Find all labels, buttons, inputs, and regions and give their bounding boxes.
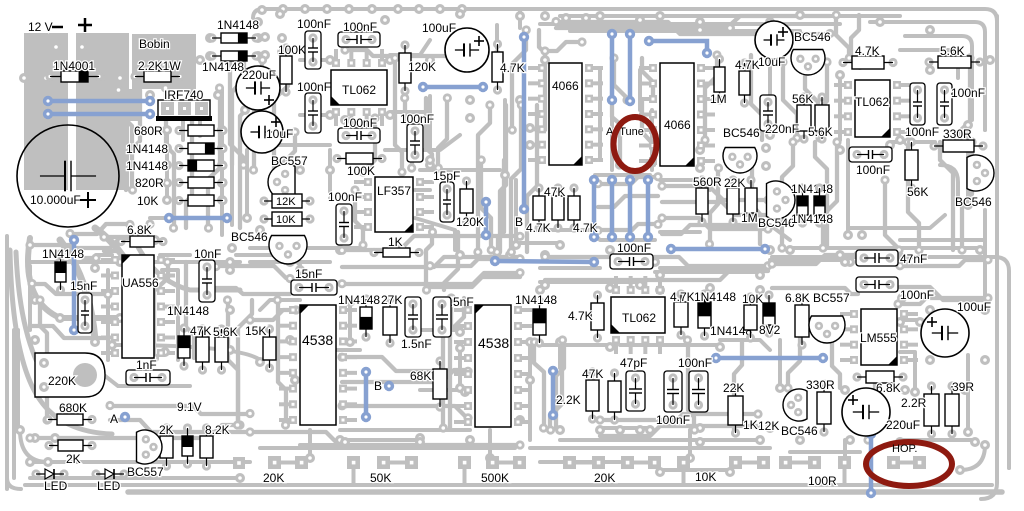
svg-text:TL062: TL062 bbox=[622, 311, 656, 325]
diode 1N4148 j bbox=[533, 296, 546, 347]
resistor 56K 2 bbox=[905, 137, 918, 192]
op-amp U10 TL062 bbox=[611, 286, 665, 344]
svg-text:BC557: BC557 bbox=[271, 154, 308, 168]
svg-text:15nF: 15nF bbox=[295, 267, 322, 281]
svg-text:47K: 47K bbox=[544, 185, 565, 199]
resistor 22K 2 bbox=[728, 383, 743, 437]
wire mesh bbox=[815, 142, 827, 248]
switch U8 4066 bbox=[649, 63, 705, 166]
wire mesh bbox=[395, 58, 402, 172]
wire bottom bus 4 bbox=[540, 460, 620, 464]
wire top sweep 1 bbox=[560, 14, 900, 18]
svg-text:1N4148: 1N4148 bbox=[338, 293, 380, 307]
wire c2 v1 bbox=[458, 350, 462, 385]
wire mesh bbox=[40, 300, 47, 420]
svg-text:4066: 4066 bbox=[664, 118, 691, 132]
wire mesh bbox=[598, 177, 658, 184]
diode 1N4148 f bbox=[178, 323, 190, 370]
transistor BC557 3 bbox=[809, 316, 845, 343]
svg-text:10K: 10K bbox=[137, 194, 158, 208]
wire mesh bbox=[612, 100, 620, 165]
wire mb h 420 bbox=[600, 426, 650, 430]
wire c v 495 bbox=[495, 25, 499, 48]
wire fat 2 bbox=[60, 240, 95, 340]
svg-text:4538: 4538 bbox=[302, 332, 333, 348]
svg-text:1N4148: 1N4148 bbox=[217, 18, 259, 32]
wire mesh bbox=[30, 245, 96, 258]
svg-text:1N4148: 1N4148 bbox=[126, 159, 168, 173]
wire mesh bbox=[772, 255, 858, 264]
svg-text:12 V: 12 V bbox=[28, 20, 53, 34]
wire mesh bbox=[355, 190, 363, 245]
capacitor 220nF bbox=[760, 95, 776, 131]
capacitor 100nF 2 bbox=[338, 32, 380, 47]
svg-text:100nF: 100nF bbox=[297, 17, 331, 31]
resistor 5.6K h bbox=[924, 56, 984, 68]
wire blue long v524 bbox=[522, 37, 527, 209]
resistor 6.8K bbox=[116, 236, 167, 247]
svg-text:1nF: 1nF bbox=[136, 358, 157, 372]
wire tl1 c bbox=[300, 113, 330, 117]
wire mesh bbox=[556, 342, 564, 428]
wire mesh bbox=[851, 15, 859, 58]
diode 1N4148 i bbox=[814, 183, 825, 227]
wire board bottom edge 2 bbox=[128, 489, 1002, 495]
wire board left edge bbox=[7, 236, 21, 489]
svg-text:BC546: BC546 bbox=[231, 230, 268, 244]
wire mesh bbox=[405, 98, 412, 168]
wire 4538 mid3 bbox=[420, 328, 460, 332]
wire 4538 gap h1 bbox=[340, 428, 470, 432]
resistor 22K 1 bbox=[727, 175, 739, 226]
svg-text:680R: 680R bbox=[134, 124, 163, 138]
wire left edge2 bbox=[12, 330, 16, 478]
diode 1N4148 d bbox=[207, 51, 260, 61]
wire blue cap link bbox=[423, 85, 483, 90]
wire blue v486 bbox=[484, 202, 489, 235]
LED 1 bbox=[31, 469, 68, 479]
svg-text:22K: 22K bbox=[724, 176, 745, 190]
wire r h 142 bbox=[890, 140, 935, 144]
wire 4066 mid v1 bbox=[598, 70, 602, 160]
resistor 5.6K v2 bbox=[815, 92, 829, 143]
resistor 1M 2 bbox=[745, 175, 757, 225]
capacitor 100uF 2 bbox=[921, 309, 969, 357]
capacitor 100nF 3 bbox=[305, 93, 321, 133]
wire mb h 345 bbox=[540, 343, 610, 347]
wire mid h 268 bbox=[540, 266, 600, 270]
diode 1N4148 h bbox=[797, 183, 808, 227]
wire mesh bbox=[705, 55, 717, 140]
svg-text:10uF: 10uF bbox=[266, 127, 293, 141]
svg-text:4538: 4538 bbox=[478, 335, 509, 351]
svg-text:15K: 15K bbox=[245, 324, 266, 338]
wire mesh bbox=[342, 257, 520, 267]
svg-text:47K: 47K bbox=[190, 324, 211, 338]
wire mesh bbox=[550, 340, 562, 430]
svg-text:4066: 4066 bbox=[552, 79, 579, 93]
resistor 120K v2 bbox=[460, 176, 473, 225]
gray plane mid (12V positive rail) bbox=[76, 33, 129, 190]
svg-text:BC557: BC557 bbox=[127, 465, 164, 479]
wire lm h1 bbox=[30, 260, 240, 264]
wire mesh bbox=[614, 58, 627, 100]
svg-text:4.7K: 4.7K bbox=[735, 58, 760, 72]
wire mesh bbox=[962, 142, 972, 250]
minus terminal bbox=[52, 26, 63, 29]
wire mesh bbox=[444, 232, 458, 290]
svg-text:1N4148: 1N4148 bbox=[167, 304, 209, 318]
wire bl sweep2 bbox=[16, 252, 56, 392]
svg-text:100nF: 100nF bbox=[678, 356, 712, 370]
wire blue supply 1 bbox=[48, 99, 150, 104]
wire right ring bbox=[772, 257, 1009, 468]
svg-text:680K: 680K bbox=[59, 401, 87, 415]
svg-text:1N4148: 1N4148 bbox=[791, 212, 833, 226]
wire bottom bus 2 bbox=[260, 446, 515, 450]
plus terminal bbox=[78, 18, 92, 32]
wire mesh bbox=[104, 251, 150, 262]
capacitor 100nF 12 bbox=[689, 371, 708, 412]
svg-text:100K: 100K bbox=[347, 164, 375, 178]
wire mesh bbox=[832, 332, 840, 388]
via pads bbox=[257, 5, 267, 15]
svg-text:5.6K: 5.6K bbox=[940, 44, 965, 58]
svg-text:220K: 220K bbox=[48, 374, 76, 388]
svg-text:1N4001: 1N4001 bbox=[53, 59, 95, 73]
resistor 47K b bbox=[552, 183, 564, 232]
wire r v 968 bbox=[966, 130, 970, 200]
svg-text:560R: 560R bbox=[693, 175, 722, 189]
svg-text:330R: 330R bbox=[806, 378, 835, 392]
wire rb v1 bbox=[778, 340, 782, 385]
wire v 250 bbox=[245, 150, 249, 215]
wire bl corner2 bbox=[5, 478, 9, 489]
wire mesh bbox=[216, 266, 290, 278]
wire mesh bbox=[900, 287, 988, 300]
wire mesh bbox=[783, 62, 797, 138]
wire lm v1 bbox=[28, 266, 32, 330]
capacitor 100nF 6 bbox=[336, 204, 352, 245]
wire mesh bbox=[710, 168, 718, 244]
capacitor 100nF 7 bbox=[610, 254, 653, 269]
svg-text:100K: 100K bbox=[278, 43, 306, 57]
wire tr corner 2 bbox=[905, 36, 972, 120]
wire blue left mid bbox=[169, 216, 227, 221]
wire blue v612 bbox=[610, 34, 615, 100]
wire board bottom edge 1 bbox=[25, 483, 992, 487]
wire r v 848 bbox=[846, 140, 850, 230]
wire mesh bbox=[481, 160, 491, 250]
wire mesh bbox=[240, 88, 246, 228]
monostable U5 4538 bbox=[289, 305, 347, 425]
wire mesh bbox=[104, 224, 150, 237]
svg-text:100nF: 100nF bbox=[297, 80, 331, 94]
wire mesh bbox=[885, 180, 899, 250]
resistor 4.7K h bbox=[838, 56, 897, 69]
svg-text:100nF: 100nF bbox=[905, 125, 939, 139]
wire 4066 mid v2 bbox=[610, 110, 614, 170]
wire 4066 mid v3 bbox=[638, 70, 642, 110]
wire mesh bbox=[238, 300, 252, 425]
svg-text:4.7K: 4.7K bbox=[670, 290, 695, 304]
wire blue v612b bbox=[610, 180, 615, 237]
wire mesh bbox=[232, 55, 244, 165]
wire bottom bus 3 bbox=[530, 446, 770, 450]
diode 1N4148 e bbox=[55, 249, 66, 294]
wire mid right mesh bbox=[712, 225, 790, 240]
wire mesh bbox=[32, 326, 108, 338]
wire mesh bbox=[345, 50, 468, 56]
wire ladder bus2 bbox=[165, 135, 169, 200]
svg-text:100nF: 100nF bbox=[400, 112, 434, 126]
wire r h 452 bbox=[790, 450, 860, 454]
resistor 2.2K bbox=[608, 368, 621, 424]
wire r h 258 bbox=[770, 258, 845, 262]
wire mesh bbox=[450, 298, 464, 428]
wire mesh bbox=[788, 332, 800, 388]
resistor 100K v bbox=[280, 43, 292, 96]
wire c h 150 bbox=[385, 135, 460, 150]
wire mesh bbox=[534, 342, 544, 428]
svg-text:220uF: 220uF bbox=[242, 68, 276, 82]
svg-text:9.1V: 9.1V bbox=[177, 400, 202, 414]
svg-text:22K: 22K bbox=[723, 381, 744, 395]
wire blue v871 bbox=[869, 434, 874, 493]
svg-text:100nF: 100nF bbox=[900, 288, 934, 302]
capacitor 220uF 2 bbox=[842, 388, 890, 436]
wire blue v553 bbox=[551, 371, 556, 415]
svg-text:27K: 27K bbox=[381, 293, 402, 307]
wire bottom drop 1 bbox=[308, 430, 312, 455]
wire mesh bbox=[782, 142, 793, 248]
resistor 10K box bbox=[259, 212, 314, 226]
wire tr loop bbox=[900, 50, 958, 78]
resistor 2K 1 bbox=[44, 440, 96, 451]
monostable U6 4538 bbox=[464, 305, 522, 427]
wire r h 245 bbox=[790, 246, 980, 250]
wire tl1 b bbox=[390, 40, 430, 55]
trimmer pads bottom row bbox=[233, 457, 245, 469]
wire bl sweep1 bbox=[10, 250, 112, 434]
wire mesh bbox=[228, 300, 238, 425]
wire mesh bbox=[642, 100, 654, 165]
capacitor 10nF bbox=[199, 260, 215, 302]
svg-text:4.7K: 4.7K bbox=[500, 61, 525, 75]
wire mesh bbox=[752, 168, 760, 244]
wire 4538 gap v1 bbox=[348, 300, 352, 340]
svg-text:B: B bbox=[374, 379, 382, 393]
wire 4538 top bbox=[260, 300, 300, 310]
svg-text:BC546: BC546 bbox=[758, 216, 795, 230]
transistor BC557 2 bbox=[137, 430, 163, 464]
wire mesh bbox=[823, 142, 837, 248]
svg-text:1N4148: 1N4148 bbox=[791, 182, 833, 196]
annotation ellipse Tune bbox=[614, 117, 657, 171]
capacitor 10uF 2 bbox=[755, 21, 793, 59]
wire mesh bbox=[443, 298, 451, 428]
wire blue v365 node B bbox=[364, 372, 369, 417]
svg-text:50K: 50K bbox=[370, 471, 391, 485]
svg-text:LM555: LM555 bbox=[860, 331, 897, 345]
wire blue v630 bbox=[628, 34, 633, 101]
capacitor 10.000uF bbox=[17, 125, 119, 227]
resistor 47K c bbox=[568, 183, 580, 232]
wire mesh bbox=[600, 414, 758, 420]
LED 2 bbox=[91, 469, 128, 479]
resistor 47K v1 bbox=[196, 324, 209, 374]
switch U7 4066 bbox=[538, 63, 593, 165]
wire mb v 560 bbox=[558, 340, 562, 368]
wire mesh bbox=[283, 132, 295, 172]
wire top mid vert bbox=[518, 9, 522, 28]
wire mesh bbox=[478, 105, 490, 252]
wire mid h 255 bbox=[660, 180, 710, 190]
svg-text:5.6K: 5.6K bbox=[808, 125, 833, 139]
resistor 680R bbox=[174, 125, 227, 136]
wire mesh bbox=[30, 425, 240, 438]
svg-text:100nF: 100nF bbox=[328, 190, 362, 204]
svg-text:4.7K: 4.7K bbox=[568, 309, 593, 323]
wire mid v 520 bbox=[514, 180, 518, 240]
wire mb stair bbox=[720, 340, 770, 350]
wire top sweep 3 bbox=[570, 29, 800, 33]
resistor 680K bbox=[43, 414, 96, 425]
wire mesh bbox=[70, 238, 130, 248]
svg-text:1M: 1M bbox=[741, 211, 758, 225]
svg-text:A: A bbox=[110, 412, 118, 426]
wire mesh bbox=[598, 196, 658, 207]
wire mesh bbox=[186, 262, 194, 358]
potentiometer 220K bbox=[35, 353, 105, 397]
annotation ellipse HOP bbox=[866, 442, 952, 486]
wire mid left mesh3 bbox=[96, 253, 112, 257]
op-amp U2 TL062 bbox=[331, 59, 387, 116]
svg-text:10K: 10K bbox=[742, 292, 763, 306]
resistor 120K v1 bbox=[399, 40, 411, 95]
zener 9.1V bbox=[182, 423, 193, 468]
capacitor 10uF bbox=[241, 111, 283, 153]
wire irf leg2 bbox=[181, 121, 185, 140]
svg-text:100nF: 100nF bbox=[343, 20, 377, 34]
svg-text:39R: 39R bbox=[952, 380, 974, 394]
svg-text:330R: 330R bbox=[943, 127, 972, 141]
wire bottom drop 4 bbox=[843, 440, 847, 458]
svg-text:BC546: BC546 bbox=[723, 126, 760, 140]
svg-text:4.7K: 4.7K bbox=[526, 221, 551, 235]
wire left big arc bbox=[28, 238, 120, 318]
wire blue supply 2 bbox=[48, 112, 150, 117]
transistor BC546 5 bbox=[967, 155, 994, 191]
resistor 47K a bbox=[533, 183, 545, 232]
resistor 8.2K bbox=[200, 423, 213, 470]
wire left arc2 bbox=[130, 230, 240, 290]
resistor 4.7K v3 bbox=[591, 290, 604, 342]
capacitor 15pF bbox=[440, 182, 454, 222]
wire mesh bbox=[438, 98, 447, 168]
wire irf leg1 bbox=[164, 121, 168, 136]
wire mesh bbox=[805, 62, 818, 138]
svg-text:4.7K: 4.7K bbox=[855, 44, 880, 58]
wire r v 840 bbox=[838, 80, 842, 140]
svg-text:2.2K1W: 2.2K1W bbox=[138, 59, 181, 73]
wire r h 160 bbox=[848, 215, 945, 228]
wire c v 505 bbox=[503, 100, 507, 170]
svg-text:8V2: 8V2 bbox=[759, 323, 781, 337]
wire mesh bbox=[110, 420, 250, 432]
wire bot h 440 bbox=[560, 438, 760, 442]
svg-text:100uF: 100uF bbox=[422, 21, 456, 35]
wire 4538 mid4 bbox=[420, 388, 465, 392]
resistor 5.6K v1 bbox=[215, 324, 228, 374]
wire mesh bbox=[430, 259, 520, 266]
wire board right edge bbox=[981, 16, 997, 499]
svg-text:2.2R: 2.2R bbox=[901, 396, 927, 410]
wire mesh bbox=[342, 273, 520, 284]
diode 1N4148 g bbox=[360, 294, 372, 341]
svg-text:1N4148: 1N4148 bbox=[515, 293, 557, 307]
capacitor 15nF 1 bbox=[78, 293, 92, 333]
timer U4 UA556 bbox=[111, 255, 165, 358]
svg-text:1K: 1K bbox=[743, 418, 758, 432]
wire blue h249 bbox=[671, 247, 765, 252]
svg-text:1.5nF: 1.5nF bbox=[401, 337, 432, 351]
wire mesh bbox=[688, 340, 694, 430]
wire h 1 bbox=[250, 143, 330, 147]
transistor BC557 1 bbox=[268, 164, 295, 200]
svg-text:120K: 120K bbox=[456, 215, 484, 229]
wire mesh bbox=[498, 160, 504, 250]
wire mid h 270b bbox=[660, 266, 760, 270]
svg-text:10uF: 10uF bbox=[758, 55, 785, 69]
wire mesh bbox=[278, 300, 286, 425]
diode 1N4148 b bbox=[174, 160, 227, 171]
wire c2 v2 bbox=[528, 345, 532, 440]
svg-text:1M: 1M bbox=[710, 92, 727, 106]
wire r lm mesh2 bbox=[900, 352, 915, 390]
svg-text:100nF: 100nF bbox=[951, 86, 985, 100]
svg-text:2K: 2K bbox=[159, 423, 174, 437]
wire bottom drop 2 bbox=[488, 430, 492, 455]
wire mesh bbox=[957, 58, 970, 138]
wire r h 440 bbox=[900, 438, 975, 442]
wire mid left mesh1 bbox=[236, 255, 300, 265]
capacitor 100nF 4 bbox=[338, 128, 380, 143]
wire 4066 stair3 bbox=[520, 241, 560, 245]
svg-text:1N4148: 1N4148 bbox=[694, 290, 736, 304]
wire mesh bbox=[545, 257, 768, 266]
wire bl corner bbox=[20, 430, 48, 462]
svg-text:100nF: 100nF bbox=[343, 116, 377, 130]
wire c h 175 bbox=[420, 168, 500, 172]
wire mesh bbox=[118, 90, 132, 190]
capacitor 100nF 8 bbox=[910, 83, 925, 125]
transistor BC546 1 bbox=[269, 236, 307, 265]
resistor 2.2K1W bbox=[130, 71, 184, 82]
wire mesh bbox=[662, 225, 768, 234]
wire mesh bbox=[216, 288, 290, 294]
wire c v 430 bbox=[428, 96, 432, 150]
resistor 1M 1 bbox=[714, 54, 725, 104]
transistor IRF740 bbox=[156, 100, 212, 121]
svg-text:100R: 100R bbox=[808, 474, 837, 488]
wire left col 2 bbox=[230, 100, 234, 225]
wire fat 1 bbox=[95, 228, 150, 330]
diode 1N4148 k bbox=[698, 289, 711, 340]
wire blue left vert bbox=[72, 240, 77, 330]
wire r loop small bbox=[940, 165, 958, 205]
svg-text:20K: 20K bbox=[263, 471, 284, 485]
